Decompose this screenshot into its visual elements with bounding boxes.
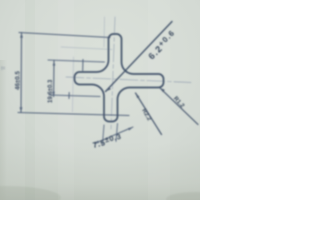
faint vertical construction line near top arm [103, 17, 106, 47]
bottom width extension line right [116, 124, 118, 142]
overall height dimension line (left) [20, 33, 23, 113]
slot width leader arrow [106, 87, 111, 92]
horizontal centerline [66, 77, 191, 83]
bottom dim arrow right [128, 127, 133, 130]
leader B arrow [160, 88, 165, 92]
extension line wing lower [49, 95, 100, 97]
fillet radius leader A [136, 93, 162, 135]
tick on lower wing extension line [68, 93, 70, 99]
cross outline [75, 34, 164, 122]
extension line bottom [18, 113, 129, 116]
leader A arrow [136, 93, 140, 98]
bottom width extension line left [103, 125, 105, 144]
faint vertical construction line left of cross [73, 57, 74, 112]
extension line wing upper [48, 60, 105, 62]
paper streaks [58, 0, 74, 200]
bottom dim arrow left [94, 141, 99, 144]
svg-text:19.6±0.3: 19.6±0.3 [48, 79, 54, 103]
extension line top [19, 33, 110, 38]
wing span dimension line [53, 61, 55, 97]
faint horizontal construction line y48 [61, 47, 112, 50]
slot width leader line [106, 22, 173, 92]
arrow down (overall dim) [20, 107, 23, 112]
tip radius leader B [160, 88, 198, 125]
svg-text:46±0.5: 46±0.5 [15, 71, 22, 90]
bottom width dimension line [95, 127, 134, 144]
vertical centerline [111, 17, 115, 129]
paper background [0, 0, 200, 200]
tick on upper wing extension line [82, 60, 84, 71]
arrow up (overall dim) [20, 33, 23, 38]
arrow up (wing dim) [53, 61, 56, 66]
arrow down (wing dim) [52, 92, 55, 97]
svg-text:t=: t= [1, 66, 5, 72]
